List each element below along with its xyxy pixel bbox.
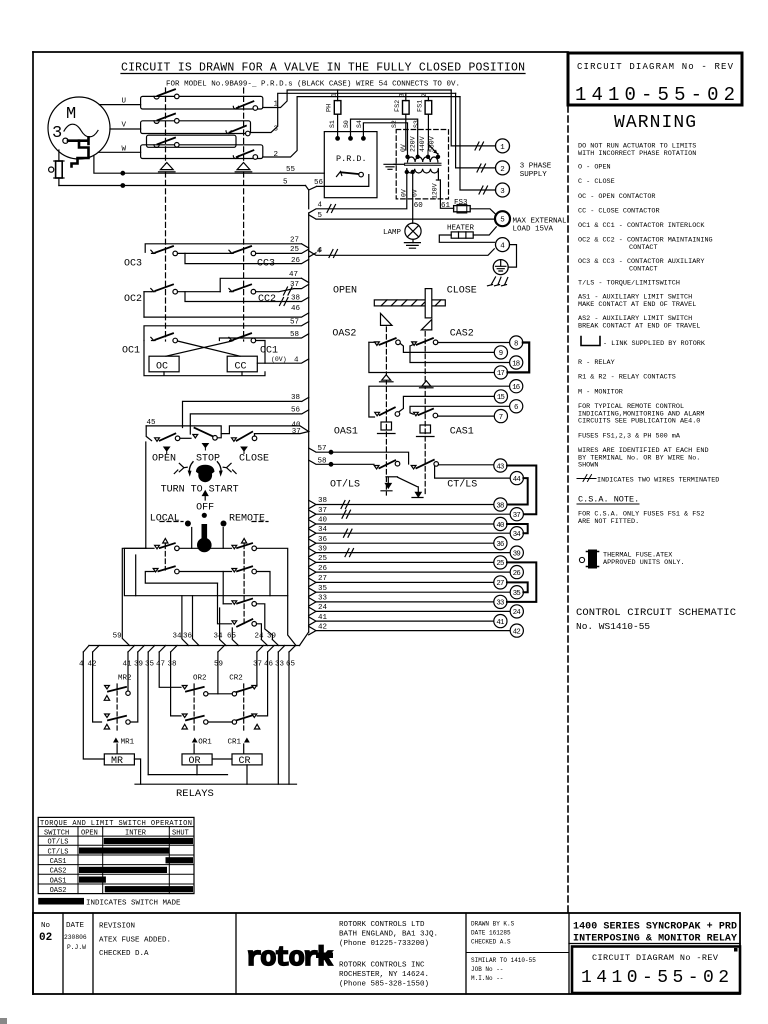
- svg-text:JOB No --: JOB No --: [471, 966, 503, 973]
- svg-text:25: 25: [496, 560, 504, 568]
- link 43-37: [507, 466, 536, 515]
- svg-text:57: 57: [290, 319, 299, 327]
- svg-text:OAS1: OAS1: [50, 877, 67, 885]
- svg-text:P.R.D.: P.R.D.: [336, 154, 367, 164]
- svg-text:CONTACT: CONTACT: [629, 265, 658, 273]
- terminal 36: [494, 537, 507, 550]
- svg-text:FS2: FS2: [394, 100, 402, 112]
- svg-text:CIRCUITS SEE PUBLICATION AE4.0: CIRCUITS SEE PUBLICATION AE4.0: [578, 418, 700, 426]
- terminal 16: [510, 380, 523, 393]
- svg-text:CT/LS: CT/LS: [447, 479, 477, 491]
- svg-text:3: 3: [399, 93, 406, 97]
- svg-text:5: 5: [500, 217, 505, 225]
- svg-text:CT/LS: CT/LS: [47, 848, 68, 856]
- wire 35L: [309, 588, 511, 596]
- svg-text:46: 46: [291, 305, 301, 313]
- svg-text:35: 35: [318, 585, 328, 593]
- svg-text:T/LS - TORQUE/LIMITSWITCH: T/LS - TORQUE/LIMITSWITCH: [578, 280, 680, 288]
- transformer secondary: [405, 169, 438, 174]
- svg-text:36: 36: [496, 541, 504, 549]
- contact OC3: [145, 244, 309, 256]
- svg-text:DATE 161285: DATE 161285: [471, 930, 511, 937]
- svg-text:OC: OC: [156, 362, 168, 373]
- svg-text:9: 9: [499, 350, 503, 358]
- wire 8: [438, 342, 510, 344]
- svg-text:SHUT: SHUT: [172, 829, 189, 837]
- table legend: [38, 898, 84, 905]
- svg-text:45: 45: [147, 419, 157, 427]
- S0 S4 tap wires: [351, 119, 418, 156]
- contact CC3: [229, 246, 309, 256]
- terminal 26: [510, 566, 523, 579]
- contact knob STOP: [193, 428, 221, 440]
- wire 41L: [309, 617, 494, 625]
- wire 25L: [309, 558, 494, 566]
- motor M3: [48, 97, 110, 159]
- svg-text:No. WS1410-55: No. WS1410-55: [576, 621, 650, 632]
- knob box outline: [146, 426, 309, 441]
- svg-text:LOAD 15VA: LOAD 15VA: [513, 225, 554, 233]
- svg-text:56: 56: [291, 407, 301, 415]
- right panel: [576, 113, 736, 632]
- terminal 5: [495, 211, 510, 226]
- svg-text:OR: OR: [189, 756, 201, 767]
- svg-text:S1: S1: [329, 120, 336, 128]
- wire 27L: [309, 578, 494, 586]
- svg-text:2: 2: [500, 166, 505, 174]
- earth electrode: [488, 245, 517, 286]
- svg-text:60: 60: [414, 202, 424, 210]
- svg-text:CLOSE: CLOSE: [447, 286, 477, 297]
- coil return wire: [144, 341, 265, 376]
- svg-text:OT/LS: OT/LS: [47, 839, 68, 847]
- svg-text:OAS2: OAS2: [332, 329, 356, 340]
- wire 58: [219, 334, 308, 341]
- svg-text:INTERPOSING & MONITOR RELAY: INTERPOSING & MONITOR RELAY: [573, 934, 737, 945]
- wire 41 drop: [127, 652, 129, 691]
- lamp ground: [404, 239, 420, 248]
- svg-text:ROTORK CONTROLS INC: ROTORK CONTROLS INC: [339, 962, 425, 970]
- wire 17 / AS2 box: [369, 342, 494, 372]
- terminal 8: [510, 336, 523, 349]
- contact OC2: [144, 285, 220, 318]
- svg-text:CC - CLOSE CONTACTOR: CC - CLOSE CONTACTOR: [578, 208, 660, 216]
- svg-text:39: 39: [134, 661, 143, 669]
- contact REMOTE1: [223, 528, 296, 646]
- wire 57b: [309, 448, 409, 464]
- contact knob OPEN: [155, 434, 191, 442]
- wire 33L: [309, 598, 494, 606]
- selector linkage dashed: [165, 544, 244, 626]
- svg-text:25: 25: [290, 246, 300, 254]
- wire 5 to terminal 5: [309, 215, 495, 219]
- svg-text:27: 27: [496, 580, 504, 588]
- svg-text:34: 34: [513, 531, 522, 539]
- svg-text:15: 15: [497, 394, 505, 402]
- terminal 24: [510, 605, 523, 618]
- svg-text:OC3: OC3: [124, 259, 142, 270]
- svg-text:39: 39: [267, 633, 276, 641]
- OAS dashed stems: [386, 327, 425, 495]
- wire 57: [144, 322, 309, 341]
- svg-text:24: 24: [513, 609, 522, 617]
- svg-text:BATH ENGLAND, BA1 3JQ.: BATH ENGLAND, BA1 3JQ.: [339, 931, 438, 939]
- knob-box left side: [122, 442, 146, 646]
- svg-text:39: 39: [318, 545, 327, 553]
- svg-text:S2: S2: [391, 120, 398, 128]
- wire 38L: [309, 500, 494, 508]
- svg-text:CONTACT: CONTACT: [629, 244, 658, 252]
- svg-text:40: 40: [496, 522, 504, 530]
- svg-text:4: 4: [294, 357, 299, 365]
- terminal 41: [494, 615, 507, 628]
- svg-text:38: 38: [318, 497, 327, 505]
- contact CT/LS: [411, 460, 494, 469]
- wire 35 drop: [147, 652, 149, 775]
- svg-text:STOP: STOP: [196, 453, 220, 464]
- wire 47 drop: [159, 652, 181, 687]
- svg-text:42: 42: [513, 628, 521, 636]
- terminal 25: [494, 556, 507, 569]
- svg-text:26: 26: [513, 570, 521, 578]
- svg-text:24: 24: [318, 604, 328, 612]
- svg-text:440V: 440V: [419, 136, 426, 152]
- svg-text:36: 36: [318, 536, 328, 544]
- svg-text:INDICATES SWITCH MADE: INDICATES SWITCH MADE: [86, 900, 181, 908]
- svg-text:FOR MODEL No.9BA99-_ P.R.D.s (: FOR MODEL No.9BA99-_ P.R.D.s (BLACK CASE…: [166, 81, 460, 89]
- contact REMOTE3: [223, 599, 272, 640]
- terminal 3: [460, 97, 510, 197]
- svg-text:25: 25: [318, 555, 328, 563]
- contact CC1: [229, 333, 256, 343]
- wire 5 bottom: [59, 184, 306, 188]
- svg-text:C.S.A. NOTE.: C.S.A. NOTE.: [578, 495, 639, 505]
- terminal 35: [510, 586, 523, 599]
- wire 46: [144, 313, 309, 317]
- svg-text:38: 38: [291, 294, 300, 302]
- svg-text:R1 & R2 - RELAY CONTACTS: R1 & R2 - RELAY CONTACTS: [578, 374, 676, 382]
- svg-text:SHOWN: SHOWN: [578, 462, 598, 470]
- 5/56 merge to bus: [306, 175, 369, 209]
- svg-text:120V: 120V: [432, 183, 439, 199]
- svg-text:37: 37: [253, 661, 262, 669]
- svg-text:37: 37: [292, 428, 301, 436]
- svg-text:MAX EXTERNAL: MAX EXTERNAL: [513, 217, 568, 225]
- svg-text:No: No: [41, 922, 51, 930]
- svg-text:LAMP: LAMP: [383, 229, 402, 237]
- table bars: [79, 838, 193, 892]
- wire 37 drop: [256, 652, 258, 686]
- svg-text:65: 65: [286, 661, 296, 669]
- terminal 38: [494, 498, 507, 511]
- selector dots: [202, 513, 207, 518]
- separator dashed vertical: [567, 106, 569, 912]
- wire 47: [220, 278, 309, 291]
- svg-text:ATEX FUSE ADDED.: ATEX FUSE ADDED.: [99, 937, 171, 945]
- wire 40L: [309, 520, 494, 528]
- svg-text:TURN TO START: TURN TO START: [161, 485, 239, 496]
- terminal 27: [494, 576, 507, 589]
- svg-text:OC1: OC1: [122, 346, 140, 357]
- phase row V: [110, 93, 456, 136]
- wire 46 drop: [257, 652, 267, 716]
- svg-text:2: 2: [274, 151, 279, 159]
- svg-text:CHECKED D.A: CHECKED D.A: [99, 950, 149, 958]
- terminal 6: [510, 400, 523, 413]
- svg-text:RELAYS: RELAYS: [176, 788, 214, 800]
- svg-text:S3: S3: [413, 120, 420, 128]
- svg-text:OFF: OFF: [196, 503, 214, 514]
- svg-text:M.I.No --: M.I.No --: [471, 975, 503, 982]
- link 25-33: [507, 562, 536, 602]
- svg-text:SUPPLY: SUPPLY: [520, 171, 548, 179]
- svg-text:58: 58: [290, 331, 299, 339]
- BOTTOM-LEFT-MARK: [0, 1018, 7, 1024]
- mech stop CAS1: [417, 425, 435, 437]
- limit switch table: [38, 817, 194, 893]
- wire 39L: [309, 548, 511, 556]
- coil CC: [227, 356, 257, 372]
- svg-text:OT/LS: OT/LS: [330, 479, 360, 491]
- wire 37L: [309, 510, 511, 518]
- wire 65 drop: [288, 652, 290, 784]
- svg-text:CAS1: CAS1: [50, 858, 67, 866]
- svg-text:61: 61: [441, 202, 451, 210]
- svg-text:37: 37: [513, 512, 521, 520]
- svg-text:FS1: FS1: [417, 100, 425, 112]
- svg-text:CC2: CC2: [258, 294, 276, 305]
- svg-text:REMOTE: REMOTE: [229, 514, 265, 525]
- wire 36L: [309, 539, 494, 547]
- contact OAS1: [375, 408, 400, 417]
- transformer dashed box: [396, 130, 448, 199]
- page border left: [32, 52, 34, 994]
- inter-relay wires: [135, 694, 297, 784]
- svg-text:58: 58: [318, 457, 327, 465]
- coil OC: [149, 356, 179, 372]
- wire 38: [185, 292, 309, 306]
- svg-text:CAS2: CAS2: [450, 329, 474, 340]
- svg-text:40: 40: [318, 517, 328, 525]
- transformer core ground: [384, 164, 405, 169]
- wire 55: [94, 156, 324, 176]
- linkage arrow right: [235, 163, 252, 172]
- svg-text:8: 8: [514, 340, 518, 348]
- terminal 9: [494, 346, 507, 359]
- svg-text:REVISION: REVISION: [99, 923, 135, 931]
- svg-text:ROTORK CONTROLS LTD: ROTORK CONTROLS LTD: [339, 921, 425, 929]
- wire 61 to FS3: [436, 173, 453, 208]
- svg-text:34: 34: [318, 526, 328, 534]
- wire 42 drop: [93, 652, 102, 722]
- wire 9: [400, 344, 494, 353]
- svg-text:OAS1: OAS1: [334, 427, 358, 438]
- travel arrow OAS2: [380, 375, 394, 382]
- inner link rect VW: [147, 135, 237, 147]
- svg-text:ARE NOT FITTED.: ARE NOT FITTED.: [578, 518, 639, 526]
- svg-text:CHECKED A.S: CHECKED A.S: [471, 939, 511, 946]
- fuse FS1: [425, 97, 432, 150]
- wire 34L: [309, 529, 511, 537]
- svg-text:1400 SERIES SYNCROPAK + PRD: 1400 SERIES SYNCROPAK + PRD: [573, 922, 737, 933]
- svg-text:38: 38: [496, 502, 504, 510]
- svg-text:DRAWN BY K.S: DRAWN BY K.S: [471, 921, 515, 928]
- svg-text:CR2: CR2: [229, 675, 243, 683]
- svg-text:V: V: [122, 122, 127, 130]
- fan bottom edge: [89, 645, 300, 647]
- wire 58b: [309, 460, 374, 466]
- fuse FS2: [403, 93, 410, 150]
- svg-text:7: 7: [499, 414, 503, 422]
- svg-text:C - CLOSE: C - CLOSE: [578, 178, 615, 186]
- svg-text:OPEN: OPEN: [81, 829, 98, 837]
- wire 33 drop: [277, 652, 279, 784]
- svg-text:(Phone 01225-733200): (Phone 01225-733200): [339, 940, 429, 948]
- fuse PH: [334, 90, 341, 138]
- terminal 33: [494, 595, 507, 608]
- svg-text:4: 4: [318, 247, 323, 255]
- svg-text:OPEN: OPEN: [152, 453, 176, 464]
- link symbol: [581, 337, 600, 346]
- svg-text:WITH INCORRECT PHASE ROTATION: WITH INCORRECT PHASE ROTATION: [578, 150, 696, 158]
- wire 39 drop: [130, 652, 137, 722]
- interlock cross wires: [166, 341, 265, 364]
- svg-text:ROCHESTER, NY 14624.: ROCHESTER, NY 14624.: [339, 971, 429, 979]
- svg-text:36: 36: [183, 633, 193, 641]
- knob graphic: [174, 462, 236, 482]
- svg-text:47: 47: [156, 661, 165, 669]
- svg-text:S4: S4: [356, 120, 363, 128]
- svg-text:41: 41: [318, 614, 328, 622]
- inner box: [124, 548, 287, 595]
- svg-text:55: 55: [286, 166, 296, 174]
- svg-text:5: 5: [283, 179, 288, 187]
- cam foot CAS2: [421, 319, 432, 330]
- svg-text:59: 59: [214, 661, 223, 669]
- contact REMOTE4: [218, 583, 262, 639]
- terminal 1: [451, 90, 509, 153]
- thermal fuse symbol: [579, 550, 598, 568]
- svg-text:CLOSE: CLOSE: [239, 453, 269, 464]
- svg-text:56: 56: [314, 179, 324, 187]
- svg-text:26: 26: [318, 565, 328, 573]
- linkage arrow left: [159, 163, 176, 172]
- inner drops to fan: [182, 596, 309, 646]
- wire 44 stub: [435, 467, 511, 479]
- wire 59 drop: [217, 652, 219, 694]
- svg-text:CR: CR: [239, 756, 251, 767]
- wire 4a (0V): [309, 173, 407, 213]
- wire 24L: [309, 607, 511, 615]
- wire 6: [410, 406, 510, 414]
- svg-text:230806: 230806: [64, 934, 87, 941]
- svg-text:33: 33: [275, 661, 285, 669]
- svg-text:INDICATES TWO WIRES TERMINATED: INDICATES TWO WIRES TERMINATED: [597, 476, 719, 484]
- wire 15: [399, 396, 494, 411]
- relay coil OR: [182, 754, 212, 765]
- svg-text:MR2: MR2: [118, 675, 132, 683]
- relay coil MR: [104, 754, 134, 765]
- heading note: [121, 62, 525, 89]
- travel arrow CAS2: [420, 381, 434, 388]
- svg-text:U: U: [122, 98, 127, 106]
- contact LOCAL1: [146, 528, 232, 551]
- svg-text:P.J.W: P.J.W: [67, 944, 86, 951]
- wire 4 drop: [83, 652, 104, 759]
- svg-text:OAS2: OAS2: [50, 887, 67, 895]
- svg-text:OR1: OR1: [198, 739, 212, 747]
- svg-text:39: 39: [513, 550, 521, 558]
- svg-text:42: 42: [318, 623, 327, 631]
- selector stem: [197, 524, 212, 552]
- svg-text:41: 41: [123, 661, 133, 669]
- wire 4b to terminal 4: [309, 249, 495, 258]
- svg-text:WARNING: WARNING: [614, 113, 696, 133]
- svg-text:PH: PH: [326, 104, 334, 112]
- svg-text:MR1: MR1: [121, 739, 135, 747]
- svg-text:M: M: [66, 105, 76, 124]
- terminal 43: [494, 459, 507, 472]
- mech stop OAS1: [378, 422, 396, 434]
- svg-text:R - RELAY: R - RELAY: [578, 359, 615, 367]
- phase row U: [99, 89, 451, 110]
- main bus: [308, 213, 310, 632]
- svg-text:BREAK CONTACT AT END OF TRAVEL: BREAK CONTACT AT END OF TRAVEL: [578, 323, 700, 331]
- svg-text:16: 16: [512, 384, 520, 392]
- svg-text:27: 27: [290, 237, 299, 245]
- wire 38 drop: [171, 652, 181, 716]
- svg-text:34: 34: [173, 633, 183, 641]
- svg-text:41: 41: [496, 619, 505, 627]
- lamp: [405, 223, 421, 239]
- svg-text:02: 02: [39, 932, 52, 944]
- bottom title block: [33, 913, 740, 994]
- svg-text:APPROVED UNITS ONLY.: APPROVED UNITS ONLY.: [603, 559, 685, 567]
- torque trip symbols: [381, 477, 423, 498]
- svg-text:0V: 0V: [400, 144, 407, 152]
- svg-text:3 PHASE: 3 PHASE: [520, 163, 552, 171]
- contact CAS1: [414, 409, 438, 418]
- svg-text:SIMILAR TO 1410-55: SIMILAR TO 1410-55: [471, 957, 536, 964]
- link 40-34: [507, 524, 528, 533]
- svg-text:38: 38: [291, 394, 300, 402]
- terminal 4: [496, 238, 510, 252]
- terminal 2: [456, 93, 510, 175]
- terminal 39: [510, 546, 523, 559]
- terminal 7: [494, 410, 507, 423]
- cam bar: [374, 300, 445, 306]
- contact knob CLOSE: [232, 432, 257, 442]
- svg-text:CIRCUIT DIAGRAM No -REV: CIRCUIT DIAGRAM No -REV: [592, 953, 719, 963]
- top-right title box: [568, 53, 742, 106]
- svg-text:6: 6: [514, 404, 518, 412]
- off arrow: [203, 491, 208, 500]
- terminal 17: [494, 366, 507, 379]
- terminal 44: [510, 472, 523, 485]
- svg-text:OC2: OC2: [124, 294, 142, 305]
- contact LOCAL2: [145, 566, 231, 583]
- cam follower: [425, 289, 432, 318]
- svg-text:37: 37: [318, 507, 327, 515]
- terminal 18: [510, 356, 523, 369]
- wire 26: [185, 253, 309, 263]
- svg-text:26: 26: [291, 257, 301, 265]
- svg-text:MR: MR: [111, 756, 123, 767]
- fuse FS3: [454, 204, 497, 215]
- page border top: [33, 51, 568, 53]
- svg-text:2: 2: [421, 93, 428, 97]
- svg-text:1: 1: [500, 144, 505, 152]
